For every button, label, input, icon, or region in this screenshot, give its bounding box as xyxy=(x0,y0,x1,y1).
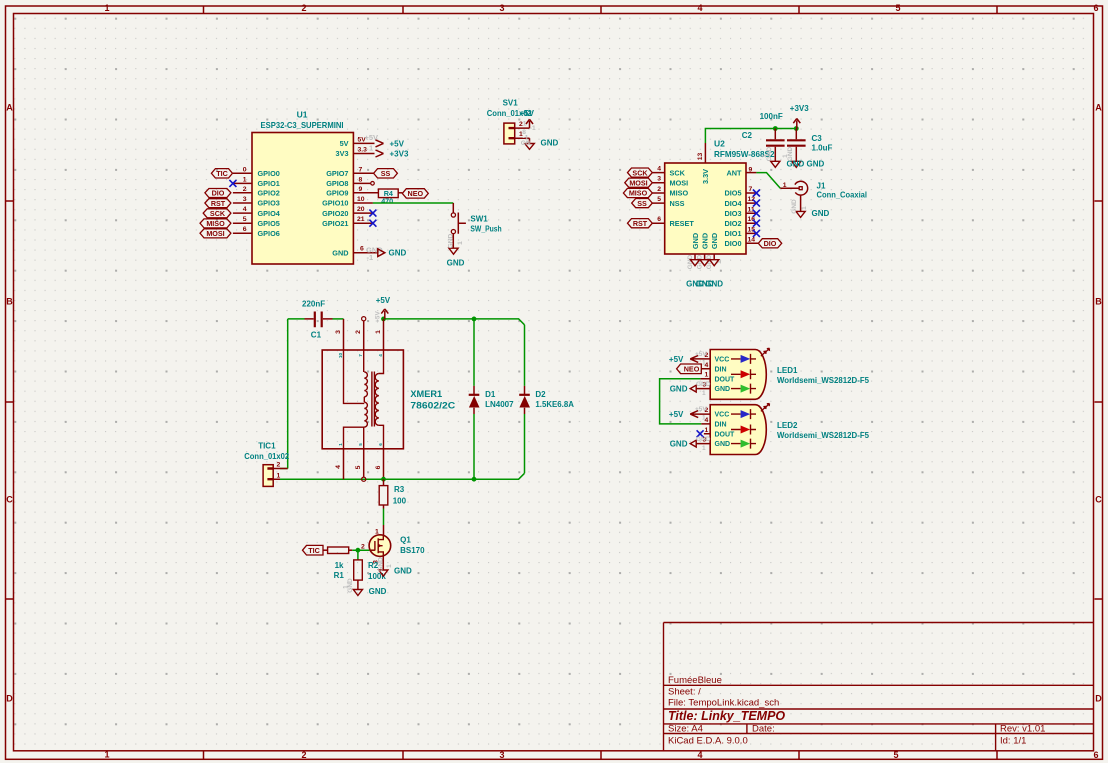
svg-text:4: 4 xyxy=(335,465,342,469)
svg-text:MOSI: MOSI xyxy=(206,229,224,238)
svg-text:GND: GND xyxy=(715,441,731,448)
svg-text:VCC: VCC xyxy=(715,412,730,419)
svg-text:5: 5 xyxy=(358,443,363,446)
svg-text:4: 4 xyxy=(378,354,383,357)
svg-text:+5V: +5V xyxy=(695,406,707,413)
svg-text:+5V: +5V xyxy=(375,310,382,322)
svg-text:FuméeBleue: FuméeBleue xyxy=(668,675,722,686)
svg-text:1: 1 xyxy=(705,372,709,379)
svg-text:Conn_01x02: Conn_01x02 xyxy=(244,452,289,461)
svg-text:GPIO6: GPIO6 xyxy=(258,229,280,238)
svg-text:SV1: SV1 xyxy=(503,99,519,108)
svg-text:5V: 5V xyxy=(340,139,349,148)
svg-text:DIN: DIN xyxy=(715,422,727,429)
svg-text:100: 100 xyxy=(393,496,407,505)
svg-text:1: 1 xyxy=(457,241,464,245)
svg-text:+3V3: +3V3 xyxy=(790,104,809,113)
svg-text:0: 0 xyxy=(243,166,247,173)
svg-text:A: A xyxy=(6,103,13,113)
svg-text:GPIO20: GPIO20 xyxy=(322,209,348,218)
svg-text:GPIO8: GPIO8 xyxy=(326,179,348,188)
svg-text:+5V: +5V xyxy=(520,109,535,118)
svg-text:1: 1 xyxy=(375,330,382,334)
svg-text:12: 12 xyxy=(748,196,756,203)
svg-text:DIO5: DIO5 xyxy=(724,189,741,198)
svg-text:SCK: SCK xyxy=(670,168,686,177)
svg-text:MISO: MISO xyxy=(670,189,689,198)
svg-text:21: 21 xyxy=(357,216,365,223)
svg-text:RST: RST xyxy=(633,219,648,228)
svg-text:GND: GND xyxy=(807,160,825,169)
svg-text:J1: J1 xyxy=(817,182,826,191)
svg-text:Size: A4: Size: A4 xyxy=(668,724,703,735)
svg-text:GND: GND xyxy=(670,385,688,394)
svg-text:BS170: BS170 xyxy=(400,546,425,555)
svg-text:1: 1 xyxy=(801,206,808,210)
svg-text:6: 6 xyxy=(657,216,661,223)
svg-text:1: 1 xyxy=(523,121,527,128)
svg-text:GPIO10: GPIO10 xyxy=(322,199,348,208)
svg-text:+3V3: +3V3 xyxy=(390,149,409,158)
svg-text:SCK: SCK xyxy=(632,168,648,177)
svg-text:GPIO9: GPIO9 xyxy=(326,189,348,198)
svg-text:1: 1 xyxy=(342,585,349,589)
svg-text:MISO: MISO xyxy=(629,189,648,198)
svg-text:3: 3 xyxy=(499,3,504,13)
svg-text:GND: GND xyxy=(447,259,465,268)
svg-text:1: 1 xyxy=(277,472,281,479)
svg-text:R3: R3 xyxy=(394,485,405,494)
svg-text:6: 6 xyxy=(1093,3,1098,13)
svg-text:10: 10 xyxy=(338,353,343,359)
svg-text:16: 16 xyxy=(748,216,756,223)
svg-text:1: 1 xyxy=(702,360,706,367)
svg-text:MISO: MISO xyxy=(206,219,225,228)
svg-text:GND: GND xyxy=(705,280,723,289)
svg-text:6: 6 xyxy=(360,246,364,253)
svg-text:RESET: RESET xyxy=(670,219,695,228)
svg-text:2: 2 xyxy=(301,750,306,760)
svg-text:GPIO2: GPIO2 xyxy=(258,189,280,198)
svg-text:DIO3: DIO3 xyxy=(724,209,741,218)
svg-text:1: 1 xyxy=(783,182,787,189)
svg-text:GPIO0: GPIO0 xyxy=(258,169,280,178)
svg-text:15: 15 xyxy=(748,226,756,233)
svg-text:DOUT: DOUT xyxy=(715,432,736,439)
svg-text:6: 6 xyxy=(243,226,247,233)
svg-text:5: 5 xyxy=(657,196,661,203)
svg-text:GND: GND xyxy=(394,567,412,576)
svg-text:TIC: TIC xyxy=(308,546,320,555)
svg-text:ANT: ANT xyxy=(727,168,743,177)
svg-text:+5V: +5V xyxy=(695,351,707,358)
svg-text:D2: D2 xyxy=(535,390,546,399)
svg-text:GND: GND xyxy=(447,233,454,248)
svg-text:DIO2: DIO2 xyxy=(724,219,741,228)
svg-text:DOUT: DOUT xyxy=(715,376,736,383)
svg-text:GND: GND xyxy=(687,254,694,269)
svg-text:GND: GND xyxy=(670,440,688,449)
svg-text:C2: C2 xyxy=(742,131,753,140)
svg-text:GND: GND xyxy=(389,249,407,258)
svg-text:2: 2 xyxy=(243,186,247,193)
svg-text:-1: -1 xyxy=(367,253,374,262)
svg-text:20: 20 xyxy=(357,206,365,213)
svg-text:GND: GND xyxy=(812,209,830,218)
svg-text:A: A xyxy=(1095,103,1102,113)
svg-text:SW1: SW1 xyxy=(470,214,488,223)
svg-text:4: 4 xyxy=(697,750,702,760)
svg-text:DIO4: DIO4 xyxy=(724,199,742,208)
svg-text:NEO: NEO xyxy=(408,189,424,198)
svg-text:File: TempoLink.kicad_sch: File: TempoLink.kicad_sch xyxy=(668,698,779,709)
svg-text:GND: GND xyxy=(766,146,773,161)
svg-text:7: 7 xyxy=(358,354,363,357)
svg-text:KiCad E.D.A. 9.0.0: KiCad E.D.A. 9.0.0 xyxy=(668,736,748,747)
svg-text:GND: GND xyxy=(369,587,387,596)
svg-text:GND: GND xyxy=(700,233,709,249)
svg-text:220nF: 220nF xyxy=(302,299,325,308)
svg-text:2: 2 xyxy=(277,462,281,469)
svg-text:1: 1 xyxy=(338,443,343,446)
svg-text:1: 1 xyxy=(243,176,247,183)
svg-text:7: 7 xyxy=(359,166,363,173)
svg-text:GND: GND xyxy=(787,146,794,161)
svg-text:Q1: Q1 xyxy=(400,536,411,545)
svg-text:1: 1 xyxy=(705,427,709,434)
svg-text:13: 13 xyxy=(697,153,704,161)
svg-text:6: 6 xyxy=(378,443,383,446)
svg-text:2: 2 xyxy=(301,3,306,13)
svg-text:1: 1 xyxy=(369,144,373,153)
svg-text:B: B xyxy=(6,297,13,307)
svg-text:NSS: NSS xyxy=(670,199,685,208)
svg-text:GPIO21: GPIO21 xyxy=(322,219,348,228)
svg-text:DIO: DIO xyxy=(212,189,225,198)
svg-text:D: D xyxy=(1095,694,1102,704)
svg-text:1.0uF: 1.0uF xyxy=(812,144,833,153)
svg-text:Worldsemi_WS2812D-F5: Worldsemi_WS2812D-F5 xyxy=(777,431,870,440)
svg-text:RST: RST xyxy=(211,199,226,208)
svg-text:DIO1: DIO1 xyxy=(724,229,741,238)
svg-text:GPIO5: GPIO5 xyxy=(258,219,280,228)
svg-text:GND: GND xyxy=(691,233,700,249)
svg-text:U1: U1 xyxy=(297,110,308,120)
svg-text:Sheet: /: Sheet: / xyxy=(668,686,701,697)
svg-text:5: 5 xyxy=(243,216,247,223)
svg-text:VCC: VCC xyxy=(715,357,730,364)
svg-text:3: 3 xyxy=(243,196,247,203)
svg-text:6: 6 xyxy=(1093,750,1098,760)
svg-text:1: 1 xyxy=(104,750,109,760)
svg-text:XMER1: XMER1 xyxy=(410,389,442,399)
svg-text:9: 9 xyxy=(359,186,363,193)
svg-text:GND: GND xyxy=(378,557,385,572)
svg-text:DIN: DIN xyxy=(715,366,727,373)
svg-text:1: 1 xyxy=(702,390,706,397)
svg-text:9: 9 xyxy=(749,167,753,174)
svg-text:1k: 1k xyxy=(335,561,344,570)
svg-text:78602/2C: 78602/2C xyxy=(410,401,455,411)
svg-text:3V3: 3V3 xyxy=(336,149,349,158)
svg-text:8: 8 xyxy=(359,176,363,183)
svg-text:LN4007: LN4007 xyxy=(485,400,514,409)
svg-text:GND: GND xyxy=(710,233,719,249)
svg-text:100nF: 100nF xyxy=(760,112,783,121)
svg-text:NEO: NEO xyxy=(684,365,700,374)
svg-text:GN: GN xyxy=(521,140,531,147)
svg-text:1.5KE6.8A: 1.5KE6.8A xyxy=(535,400,574,409)
svg-text:+5V: +5V xyxy=(390,139,405,148)
svg-text:Id: 1/1: Id: 1/1 xyxy=(1000,736,1026,747)
svg-text:TIC: TIC xyxy=(216,169,228,178)
svg-text:D1: D1 xyxy=(485,390,496,399)
svg-text:1: 1 xyxy=(104,3,109,13)
svg-text:4: 4 xyxy=(243,206,247,213)
svg-text:GPIO4: GPIO4 xyxy=(258,209,281,218)
svg-text:3: 3 xyxy=(499,750,504,760)
svg-text:C1: C1 xyxy=(311,331,322,340)
svg-text:GND: GND xyxy=(332,248,348,257)
svg-text:SCK: SCK xyxy=(210,209,226,218)
svg-text:C3: C3 xyxy=(812,134,823,143)
svg-text:GPIO7: GPIO7 xyxy=(326,169,348,178)
svg-text:4: 4 xyxy=(657,166,661,173)
svg-text:3: 3 xyxy=(335,330,342,334)
svg-text:Rev: v1.01: Rev: v1.01 xyxy=(1000,724,1045,735)
svg-text:3: 3 xyxy=(657,176,661,183)
svg-text:SS: SS xyxy=(637,199,647,208)
svg-text:Conn_Coaxial: Conn_Coaxial xyxy=(817,190,868,199)
svg-text:GND: GND xyxy=(791,199,798,214)
svg-text:MOSI: MOSI xyxy=(629,178,647,187)
svg-text:+5V: +5V xyxy=(669,355,684,364)
svg-text:GPIO1: GPIO1 xyxy=(258,179,280,188)
svg-text:ESP32-C3_SUPERMINI: ESP32-C3_SUPERMINI xyxy=(261,120,344,130)
svg-text:4: 4 xyxy=(697,3,702,13)
svg-text:5: 5 xyxy=(893,750,898,760)
svg-text:2: 2 xyxy=(657,186,661,193)
svg-text:5: 5 xyxy=(355,465,362,469)
svg-text:7: 7 xyxy=(749,186,753,193)
svg-text:DIO: DIO xyxy=(764,239,777,248)
svg-text:10: 10 xyxy=(357,196,365,203)
svg-text:SS: SS xyxy=(381,169,391,178)
svg-text:1: 1 xyxy=(386,564,393,568)
svg-text:14: 14 xyxy=(748,236,756,243)
svg-text:Worldsemi_WS2812D-F5: Worldsemi_WS2812D-F5 xyxy=(777,376,870,385)
svg-text:1: 1 xyxy=(702,445,706,452)
svg-text:+5V: +5V xyxy=(669,410,684,419)
svg-text:-1: -1 xyxy=(530,125,536,132)
svg-text:Date:: Date: xyxy=(752,724,775,735)
svg-text:D: D xyxy=(6,694,13,704)
svg-text:B: B xyxy=(1095,297,1102,307)
svg-text:Title: Linky_TEMPO: Title: Linky_TEMPO xyxy=(668,709,785,723)
svg-text:1: 1 xyxy=(782,154,789,158)
svg-text:C: C xyxy=(1095,495,1102,505)
svg-text:6: 6 xyxy=(375,465,382,469)
svg-text:+5V: +5V xyxy=(376,296,391,305)
svg-text:MOSI: MOSI xyxy=(670,178,689,187)
svg-text:LED1: LED1 xyxy=(777,366,798,375)
svg-text:U2: U2 xyxy=(714,139,725,149)
svg-text:1: 1 xyxy=(761,154,768,158)
svg-text:C: C xyxy=(6,495,13,505)
svg-text:2: 2 xyxy=(355,330,362,334)
svg-text:3.3V: 3.3V xyxy=(701,169,710,184)
svg-text:R1: R1 xyxy=(334,571,345,580)
svg-text:LED2: LED2 xyxy=(777,421,798,430)
svg-text:1: 1 xyxy=(702,415,706,422)
svg-text:GND: GND xyxy=(715,386,731,393)
svg-text:3.3: 3.3 xyxy=(358,147,368,154)
svg-text:5: 5 xyxy=(895,3,900,13)
svg-text:1: 1 xyxy=(375,529,379,536)
svg-text:DIO0: DIO0 xyxy=(724,239,741,248)
svg-text:GPIO3: GPIO3 xyxy=(258,199,280,208)
svg-text:470: 470 xyxy=(381,196,393,205)
svg-text:TIC1: TIC1 xyxy=(258,441,276,450)
svg-text:SW_Push: SW_Push xyxy=(470,225,501,234)
svg-text:GND: GND xyxy=(696,436,711,443)
svg-text:GND: GND xyxy=(696,381,711,388)
svg-text:GND: GND xyxy=(541,138,559,147)
